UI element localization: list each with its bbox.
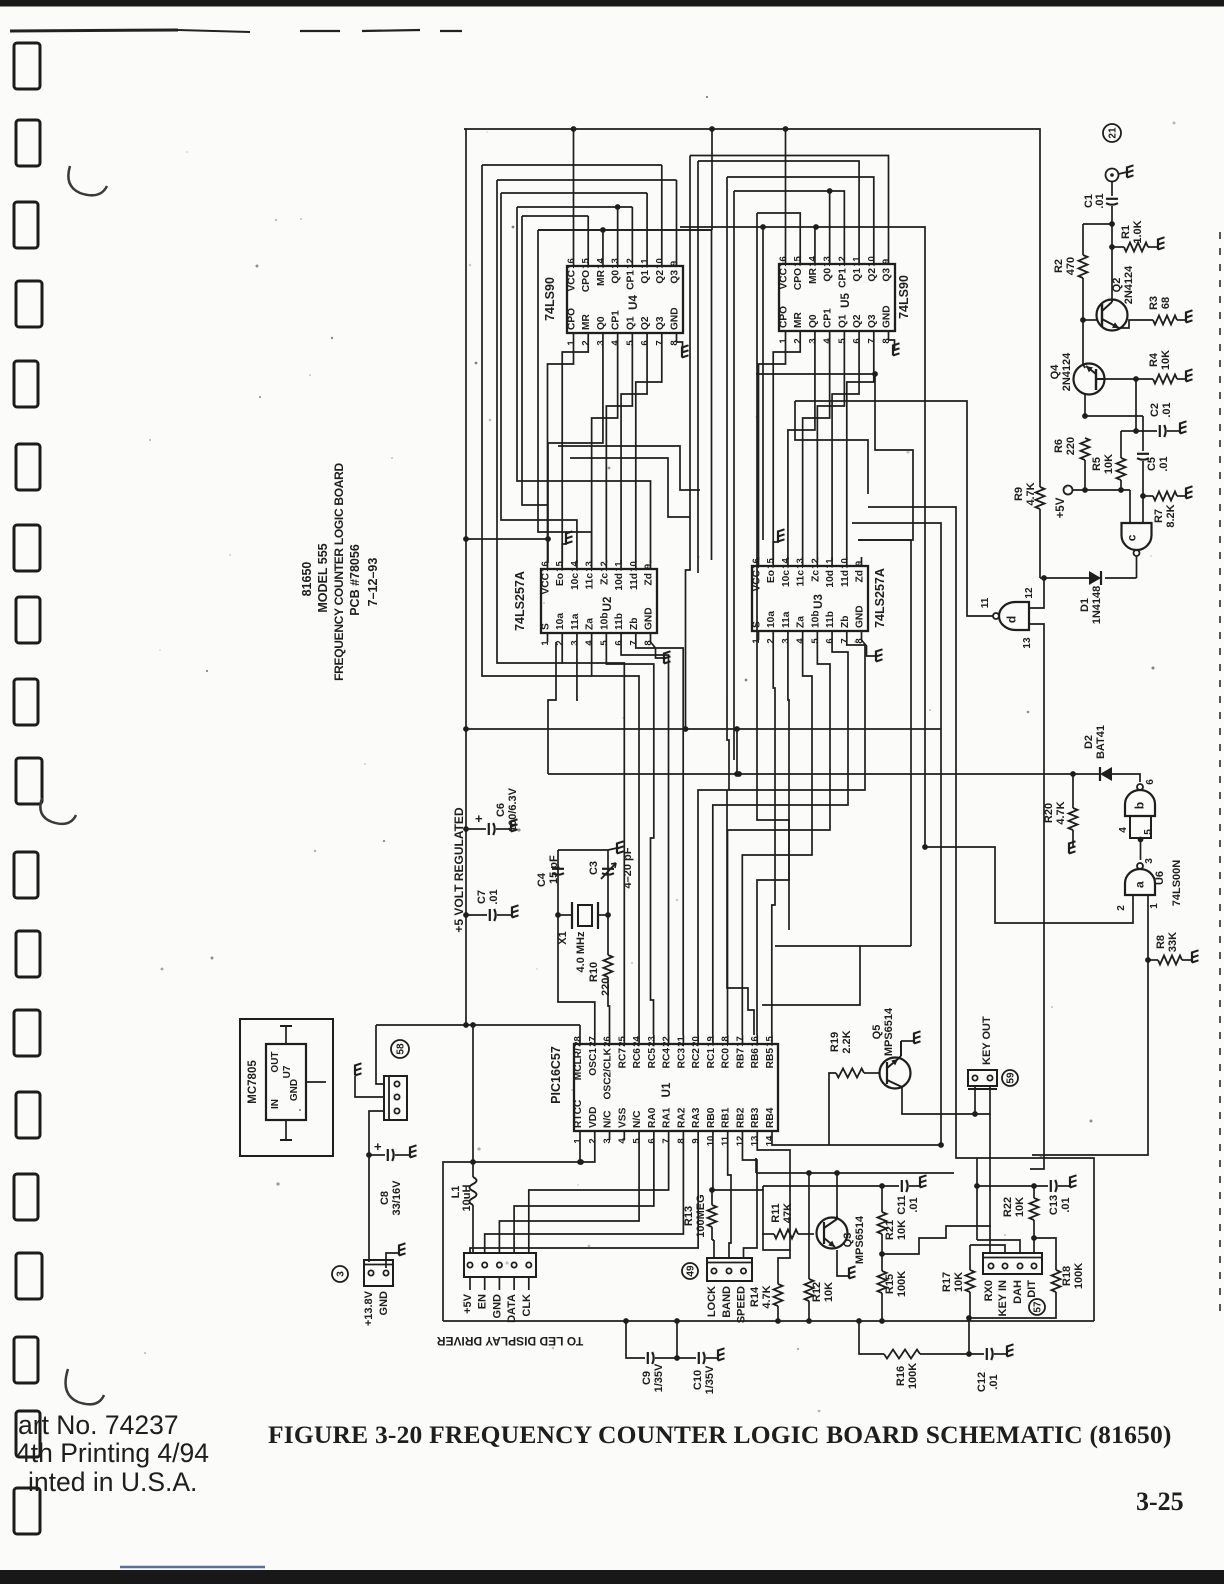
svg-text:CLK: CLK bbox=[521, 1294, 533, 1317]
svg-text:19: 19 bbox=[705, 1036, 716, 1047]
svg-text:GND: GND bbox=[882, 305, 893, 328]
node R14 bottom bbox=[775, 1318, 781, 1324]
wire y1354 bbox=[859, 1321, 884, 1354]
resistor R6 220 bbox=[1081, 438, 1090, 460]
svg-text:13: 13 bbox=[795, 558, 806, 569]
wire U5 family vertical 690 bbox=[689, 156, 691, 561]
svg-text:2N4124: 2N4124 bbox=[1061, 352, 1073, 391]
svg-text:10c: 10c bbox=[781, 570, 792, 587]
ground at C10 bbox=[717, 1350, 719, 1361]
svg-text:12: 12 bbox=[1024, 587, 1035, 599]
wire to R19 bbox=[829, 1073, 836, 1145]
binding hole 16 bbox=[16, 1253, 42, 1299]
svg-text:+: + bbox=[374, 1139, 382, 1154]
svg-text:OSC1: OSC1 bbox=[588, 1048, 599, 1076]
svg-text:33/16V: 33/16V bbox=[391, 1180, 403, 1216]
node KEY OUT pin bbox=[972, 1111, 978, 1117]
wire U2 pin6 drop bbox=[621, 642, 668, 1035]
binding hole 17 bbox=[14, 1337, 38, 1383]
binding hole 19 bbox=[14, 1488, 40, 1534]
svg-text:C2: C2 bbox=[1149, 403, 1161, 417]
svg-text:11c: 11c bbox=[585, 573, 596, 590]
node U5 pin13 tap bbox=[827, 188, 833, 194]
binding hole 4 bbox=[16, 281, 42, 327]
svg-text:MC7805: MC7805 bbox=[247, 1060, 259, 1104]
svg-text:C12: C12 bbox=[976, 1372, 988, 1392]
svg-text:GND: GND bbox=[289, 1079, 300, 1101]
wire U3 pin6 drop bbox=[713, 640, 848, 1035]
svg-text:4: 4 bbox=[822, 338, 833, 344]
node R15 bottom bbox=[879, 1318, 885, 1324]
connector LED driver 5-pin bbox=[464, 1253, 536, 1277]
svg-text:RC0: RC0 bbox=[721, 1048, 732, 1069]
node C8 bbox=[366, 1152, 372, 1158]
wire C1 to node bbox=[1111, 206, 1113, 247]
svg-text:RB0: RB0 bbox=[706, 1107, 717, 1128]
wire node to R5 top bbox=[1121, 430, 1136, 432]
node R5 +5V bbox=[1118, 487, 1124, 493]
svg-text:R2: R2 bbox=[1053, 259, 1065, 273]
ground at prog connector bbox=[354, 1065, 356, 1076]
svg-text:14: 14 bbox=[780, 558, 791, 569]
resistor R17 10K bbox=[969, 1245, 971, 1270]
svg-text:10b: 10b bbox=[810, 610, 821, 628]
diode D2 BAT41 bbox=[1100, 767, 1112, 781]
ground at U5 pin 8 bbox=[892, 345, 894, 356]
connector J58 3-pin bbox=[384, 1076, 407, 1120]
svg-text:R22: R22 bbox=[1002, 1197, 1014, 1217]
svg-text:7: 7 bbox=[654, 340, 665, 345]
label GND pin bbox=[498, 1277, 500, 1290]
svg-text:10: 10 bbox=[628, 561, 639, 572]
svg-text:10: 10 bbox=[705, 1136, 716, 1147]
svg-text:MPS6514: MPS6514 bbox=[854, 1215, 866, 1264]
capacitor C5 .01 bbox=[1142, 446, 1144, 451]
svg-text:Q2: Q2 bbox=[852, 314, 863, 328]
wire X1 frame bbox=[558, 849, 608, 851]
svg-text:+13.8V: +13.8V bbox=[363, 1290, 375, 1326]
svg-text:47K: 47K bbox=[782, 1203, 794, 1223]
wire U5 pin13 drop bbox=[829, 191, 831, 255]
svg-text:BAT41: BAT41 bbox=[1095, 725, 1107, 759]
node y1162 x581 bbox=[578, 1159, 584, 1165]
wire U2 pin4 drop bbox=[592, 642, 639, 1035]
svg-text:6: 6 bbox=[646, 1138, 657, 1143]
svg-text:4.7K: 4.7K bbox=[1025, 482, 1037, 505]
wire Q5 collector to ground bbox=[901, 1040, 914, 1042]
svg-text:10K: 10K bbox=[896, 1220, 908, 1240]
wire U5 pin1 drop bbox=[759, 340, 786, 560]
wire U4 family vertical 517 bbox=[517, 207, 651, 563]
svg-text:7: 7 bbox=[661, 1138, 672, 1143]
svg-text:10c: 10c bbox=[570, 573, 581, 590]
node R12 bottom bbox=[806, 1318, 812, 1324]
svg-text:2: 2 bbox=[587, 1138, 598, 1143]
svg-text:R4: R4 bbox=[1148, 352, 1160, 367]
svg-text:c: c bbox=[1125, 534, 1139, 541]
svg-text:RC4: RC4 bbox=[662, 1048, 673, 1069]
wire PIC pin13 R11 link bbox=[762, 1233, 764, 1235]
gate b input box bbox=[1130, 816, 1151, 838]
svg-text:220: 220 bbox=[1065, 437, 1077, 455]
svg-text:15: 15 bbox=[581, 258, 592, 269]
transistor Q2 2N4124 bbox=[1097, 300, 1128, 331]
ground at J3 bbox=[398, 1245, 400, 1256]
wire bus y1186 bbox=[763, 1185, 899, 1187]
svg-text:14: 14 bbox=[807, 256, 818, 267]
svg-text:74LS257A: 74LS257A bbox=[873, 568, 887, 628]
ground at U2 pin 15 bbox=[565, 533, 567, 544]
resistor R1 1.0K bbox=[1124, 243, 1148, 252]
wire U5 family vertical 727 bbox=[726, 177, 728, 700]
wire R1 node to Q2 collector bbox=[1111, 247, 1113, 300]
svg-text:Q2: Q2 bbox=[640, 316, 651, 330]
wire x690 jog bbox=[686, 560, 691, 729]
wire long cross 374 bbox=[756, 374, 913, 540]
page right edge scan line bbox=[1219, 232, 1221, 1315]
svg-text:Q0: Q0 bbox=[611, 270, 622, 284]
nand gate b bbox=[1125, 790, 1155, 816]
wire U5 family 2 bbox=[698, 161, 859, 255]
wire U5 pin4 drop bbox=[803, 340, 830, 560]
node R8 bbox=[1145, 957, 1151, 963]
node C9 drop bbox=[623, 1318, 629, 1324]
wire Q4 base down bbox=[1084, 394, 1086, 416]
circled pad 57 bbox=[1029, 1299, 1045, 1315]
wire D2 to gate b bbox=[1138, 774, 1140, 782]
wire U4 family vertical 522 bbox=[522, 216, 548, 505]
svg-text:9: 9 bbox=[854, 561, 865, 566]
svg-text:U5: U5 bbox=[840, 293, 852, 308]
top horizontal pen line bbox=[10, 30, 178, 31]
wire long cross 523 bbox=[852, 523, 941, 1145]
svg-text:RB6: RB6 bbox=[750, 1048, 761, 1069]
svg-text:U3: U3 bbox=[813, 594, 825, 609]
multiplexer U2 74LS257A bbox=[541, 569, 657, 633]
wire U5 family vertical 757 bbox=[756, 213, 758, 777]
svg-text:CPO: CPO bbox=[793, 268, 804, 290]
svg-text:EN: EN bbox=[477, 1294, 489, 1309]
circled pad 3 bbox=[332, 1266, 348, 1282]
svg-text:8.2K: 8.2K bbox=[1165, 504, 1177, 527]
regulator U7 MC7805 outer box bbox=[240, 1019, 333, 1156]
svg-text:28: 28 bbox=[573, 1036, 584, 1047]
svg-text:4th Printing 4/94: 4th Printing 4/94 bbox=[16, 1438, 209, 1468]
svg-text:RB3: RB3 bbox=[750, 1107, 761, 1128]
wire U2 pin2 drop bbox=[562, 642, 624, 1035]
ground at Q3 emitter bbox=[848, 1268, 850, 1279]
ground at X1 frame bbox=[616, 843, 618, 854]
wire PIC pin1 RTCC bbox=[579, 1140, 581, 1162]
wire R21 to RX0 net bbox=[882, 1226, 991, 1254]
ground at U3 pin 8 bbox=[875, 651, 877, 662]
wire bus y1186 right bbox=[976, 1158, 978, 1240]
svg-text:Q3: Q3 bbox=[842, 1233, 854, 1248]
resistor R22 10K bbox=[1033, 1186, 1035, 1198]
label +5V pin bbox=[469, 1277, 471, 1290]
wire U5 family vertical 734 bbox=[733, 191, 735, 729]
svg-text:.01: .01 bbox=[1158, 456, 1170, 471]
wire U2 pin3 drop bbox=[577, 642, 578, 700]
svg-text:RA0: RA0 bbox=[647, 1107, 658, 1128]
wire R6 to +5V rail bbox=[1084, 460, 1086, 490]
resistor R4 10K bbox=[1153, 375, 1177, 384]
transistor Q5 MPS6514 bbox=[880, 1058, 911, 1089]
binding hole 18 bbox=[16, 1411, 40, 1457]
wire +5V to gate c input bbox=[1129, 490, 1131, 523]
wire PIC pin10 drop bbox=[711, 1140, 714, 1190]
svg-text:Za: Za bbox=[585, 618, 596, 630]
wire R8 node down bbox=[1032, 960, 1148, 1155]
svg-text:RX0: RX0 bbox=[983, 1280, 995, 1301]
svg-text:10a: 10a bbox=[555, 613, 566, 630]
wire U5 pin2 drop bbox=[773, 340, 800, 560]
ground at R8 bbox=[1191, 952, 1193, 963]
svg-text:15: 15 bbox=[793, 256, 804, 267]
ground at U2 pin 8 bbox=[663, 653, 665, 664]
wire U4 pin4 drop bbox=[592, 342, 618, 563]
svg-text:RC6: RC6 bbox=[632, 1048, 643, 1069]
resistor R18 100K bbox=[1052, 1270, 1061, 1292]
wire Q3 emitter bbox=[837, 1250, 849, 1276]
wire U5 family 3 bbox=[727, 177, 874, 255]
svg-text:9: 9 bbox=[643, 564, 654, 569]
svg-text:R18: R18 bbox=[1061, 1266, 1073, 1286]
resistor R9 4.7K bbox=[1036, 487, 1045, 509]
transistor Q4 2N4124 bbox=[1074, 364, 1105, 395]
svg-text:2.2K: 2.2K bbox=[841, 1030, 853, 1053]
svg-text:C3: C3 bbox=[588, 861, 600, 875]
wire PIC pin9 stair bbox=[470, 1140, 698, 1253]
svg-text:5: 5 bbox=[599, 640, 610, 646]
svg-text:3: 3 bbox=[602, 1138, 613, 1143]
wire U4 pin9 drop bbox=[676, 180, 678, 257]
capacitor C6 100/6.3V bbox=[466, 828, 486, 830]
svg-text:IN: IN bbox=[270, 1099, 281, 1109]
svg-text:Q2: Q2 bbox=[655, 270, 666, 284]
svg-text:RB4: RB4 bbox=[765, 1107, 776, 1128]
wire PIC pin14 drop bbox=[772, 1140, 829, 1145]
node X1 left bbox=[555, 912, 561, 918]
svg-text:R13: R13 bbox=[683, 1206, 695, 1226]
svg-text:VCC: VCC bbox=[541, 572, 552, 594]
svg-text:.01: .01 bbox=[988, 1374, 1000, 1389]
svg-text:1: 1 bbox=[1149, 903, 1160, 909]
svg-text:11b: 11b bbox=[825, 611, 836, 628]
svg-text:.01: .01 bbox=[1094, 193, 1106, 208]
wire Q5 base net bbox=[829, 1144, 941, 1146]
node R1 top bbox=[1109, 244, 1115, 250]
svg-text:art No. 74237: art No. 74237 bbox=[18, 1410, 179, 1440]
resistor R12 10K bbox=[808, 1173, 810, 1279]
nand gate d bbox=[999, 602, 1029, 630]
svg-text:10K: 10K bbox=[823, 1282, 835, 1302]
ground at terminal 21 bbox=[1126, 167, 1128, 178]
ground at R1 bbox=[1157, 239, 1159, 250]
svg-text:6: 6 bbox=[614, 640, 625, 645]
svg-text:1/35V: 1/35V bbox=[653, 1363, 665, 1392]
node U4 pin13 tap bbox=[615, 204, 621, 210]
node R17 bottom bbox=[966, 1315, 972, 1321]
wire J3 pin2 ground bbox=[386, 1253, 399, 1268]
svg-text:PCB #78056: PCB #78056 bbox=[348, 544, 362, 616]
wire BAND pin bbox=[729, 1208, 731, 1258]
svg-text:100K: 100K bbox=[907, 1363, 919, 1389]
svg-text:20: 20 bbox=[691, 1036, 702, 1047]
svg-text:11a: 11a bbox=[570, 613, 581, 630]
svg-text:11: 11 bbox=[720, 1135, 731, 1146]
svg-text:PIC16C57: PIC16C57 bbox=[549, 1046, 563, 1104]
node Q2 base bbox=[1080, 317, 1086, 323]
wire U4 pin6 drop bbox=[621, 342, 647, 563]
svg-text:R14: R14 bbox=[749, 1286, 761, 1307]
node R20 top bbox=[1070, 771, 1076, 777]
svg-text:C6: C6 bbox=[495, 803, 507, 817]
svg-text:R20: R20 bbox=[1043, 803, 1055, 823]
svg-text:3: 3 bbox=[1144, 858, 1155, 864]
ground at C11 bbox=[919, 1177, 921, 1188]
resistor R11 47K bbox=[774, 1230, 798, 1239]
svg-text:RB5: RB5 bbox=[765, 1048, 776, 1069]
svg-text:RA2: RA2 bbox=[676, 1107, 687, 1128]
svg-text:10: 10 bbox=[866, 256, 877, 267]
ground at C8 bbox=[409, 1147, 411, 1158]
wire U5 family 5 bbox=[757, 213, 800, 255]
svg-text:Q5: Q5 bbox=[871, 1025, 883, 1040]
wire U2 pin7 drop bbox=[636, 642, 683, 1035]
terminal J-21 bbox=[1106, 169, 1119, 182]
svg-text:5: 5 bbox=[837, 338, 848, 344]
svg-text:26: 26 bbox=[602, 1036, 613, 1047]
wire to C9 bbox=[626, 1321, 645, 1358]
svg-text:11d: 11d bbox=[840, 570, 851, 587]
svg-text:KEY OUT: KEY OUT bbox=[981, 1016, 993, 1065]
counter U5 74LS90 bbox=[779, 264, 895, 331]
svg-text:FREQUENCY COUNTER LOGIC BOARD: FREQUENCY COUNTER LOGIC BOARD bbox=[332, 462, 346, 680]
resistor R14 4.7K bbox=[777, 1270, 779, 1284]
svg-text:4: 4 bbox=[610, 340, 621, 346]
svg-text:100K: 100K bbox=[1073, 1263, 1085, 1289]
capacitor C1 .01 bbox=[1106, 198, 1118, 200]
svg-text:TO LED DISPLAY DRIVER: TO LED DISPLAY DRIVER bbox=[436, 1334, 583, 1348]
node y1321 x859 bbox=[856, 1318, 862, 1324]
node R22 bottom bbox=[1031, 1235, 1037, 1241]
wire PIC pin8 stair bbox=[485, 1140, 684, 1253]
wire R17 to C12 bbox=[968, 1318, 970, 1354]
wire right edge loop bbox=[977, 1158, 1094, 1321]
wire U3 pin3 drop bbox=[757, 640, 789, 1035]
wire Q2 emitter to R3 bbox=[1119, 320, 1153, 328]
node U4 pin14 tap bbox=[600, 227, 606, 233]
svg-text:C4: C4 bbox=[536, 872, 548, 887]
spiral wire arc near hole 10 bbox=[40, 798, 76, 824]
svg-text:Eo: Eo bbox=[766, 570, 777, 583]
svg-text:+: + bbox=[475, 811, 483, 826]
scan speckles bbox=[469, 264, 472, 267]
wire gate c output bbox=[1136, 556, 1138, 578]
svg-text:1/35V: 1/35V bbox=[704, 1365, 716, 1394]
svg-text:VSS: VSS bbox=[617, 1107, 628, 1128]
svg-text:6: 6 bbox=[852, 338, 863, 343]
circled pad 49 bbox=[682, 1263, 698, 1279]
wire x711 to U3 bbox=[710, 128, 712, 130]
node R6 +5V bbox=[1082, 487, 1088, 493]
svg-text:100MEG: 100MEG bbox=[695, 1194, 707, 1237]
wire U5 pin5 drop bbox=[817, 340, 844, 560]
svg-text:9: 9 bbox=[669, 261, 680, 266]
svg-text:4.7K: 4.7K bbox=[761, 1285, 773, 1308]
node C7 bbox=[463, 912, 469, 918]
svg-text:Q1: Q1 bbox=[837, 314, 848, 328]
regulator U7 MC7805 bbox=[266, 1044, 306, 1120]
svg-text:Q3: Q3 bbox=[670, 270, 681, 284]
svg-text:Zc: Zc bbox=[599, 573, 610, 585]
svg-text:11: 11 bbox=[852, 256, 863, 267]
svg-text:4.0 MHz: 4.0 MHz bbox=[575, 931, 587, 972]
svg-text:16: 16 bbox=[750, 1036, 761, 1047]
svg-text:VCC: VCC bbox=[779, 267, 790, 289]
svg-text:b: b bbox=[1133, 802, 1147, 809]
wire U5 family 1 bbox=[690, 156, 889, 256]
resistor R20 4.7K bbox=[1072, 774, 1074, 808]
resistor R13 100MEG bbox=[711, 1190, 713, 1205]
svg-text:5: 5 bbox=[632, 1138, 643, 1144]
wire node to C5 branch bbox=[1085, 415, 1143, 417]
svg-text:MR: MR bbox=[793, 312, 804, 328]
wire U4 pin14 drop bbox=[602, 230, 604, 257]
svg-text:VDD: VDD bbox=[588, 1106, 599, 1128]
svg-text:3: 3 bbox=[336, 1271, 347, 1277]
svg-text:10b: 10b bbox=[599, 612, 610, 630]
wire U4 family 3 bbox=[501, 192, 647, 194]
ground at R20 bbox=[1068, 843, 1070, 854]
svg-text:3: 3 bbox=[780, 638, 791, 643]
wire SPEED pin bbox=[744, 1212, 758, 1258]
svg-text:33K: 33K bbox=[1167, 932, 1179, 952]
binding hole 7 bbox=[14, 525, 40, 571]
svg-text:74LS90: 74LS90 bbox=[897, 275, 911, 319]
svg-text:MCLR/: MCLR/ bbox=[573, 1048, 584, 1080]
svg-text:MPS6514: MPS6514 bbox=[883, 1007, 895, 1056]
svg-text:U2: U2 bbox=[602, 597, 614, 612]
wire L1 riser bbox=[472, 1025, 474, 1162]
wire pin bus y1186 left bbox=[762, 1186, 764, 1190]
wire U5 pin16 to top bus bbox=[785, 129, 787, 255]
wire right mesh 6 bbox=[757, 777, 789, 930]
svg-text:2: 2 bbox=[793, 338, 804, 343]
wire bus y1173 bbox=[756, 1172, 954, 1174]
wire PIC pin7 stair bbox=[529, 1140, 669, 1253]
svg-text:C10: C10 bbox=[692, 1370, 704, 1390]
svg-text:220: 220 bbox=[600, 978, 612, 996]
svg-text:Eo: Eo bbox=[555, 573, 566, 586]
svg-text:74LS90: 74LS90 bbox=[543, 277, 557, 321]
wire long cross 507 bbox=[868, 507, 977, 1158]
svg-text:R8: R8 bbox=[1155, 935, 1167, 949]
svg-text:N/C: N/C bbox=[632, 1110, 643, 1128]
svg-text:R17: R17 bbox=[941, 1272, 953, 1292]
wire U3 pin2 drop bbox=[772, 640, 775, 1035]
svg-text:RC5: RC5 bbox=[647, 1048, 658, 1069]
svg-text:3-25: 3-25 bbox=[1136, 1487, 1184, 1516]
svg-text:R10: R10 bbox=[588, 962, 600, 982]
binding hole 3 bbox=[14, 202, 38, 248]
svg-text:GND: GND bbox=[644, 607, 655, 630]
svg-text:Zb: Zb bbox=[840, 616, 851, 628]
wire U3 pin5 drop bbox=[728, 640, 831, 1035]
svg-text:10: 10 bbox=[839, 558, 850, 569]
label DATA pin bbox=[513, 1277, 515, 1290]
